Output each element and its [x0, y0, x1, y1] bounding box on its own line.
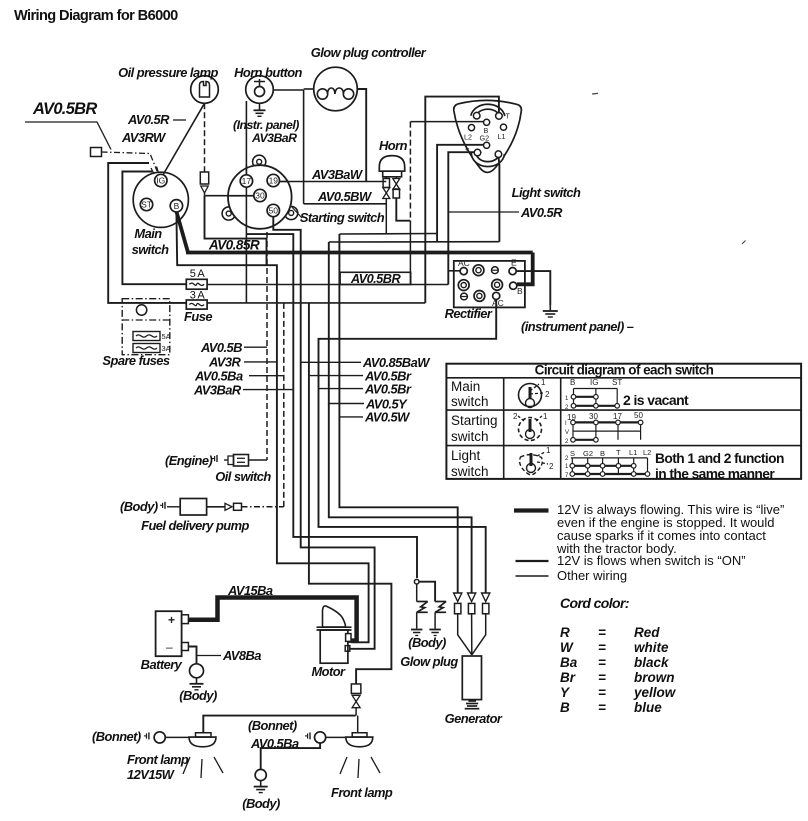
svg-text:(Body): (Body)	[179, 688, 217, 703]
wire V3 dashed fuel pump feed	[283, 303, 285, 507]
right lamp rays	[340, 757, 347, 774]
main switch	[133, 172, 188, 227]
light switch terminal L1	[500, 124, 506, 130]
svg-text:AV3BaW: AV3BaW	[311, 167, 364, 182]
svg-text:Ba: Ba	[560, 655, 578, 670]
wire 30 branch down around AV0.85R label	[205, 196, 267, 266]
light switch terminal L2	[468, 125, 474, 131]
dashed wire pump to V3	[242, 506, 284, 508]
svg-text:2 is vacant: 2 is vacant	[623, 392, 689, 408]
wire main switch IG area to 5A fuse	[122, 172, 186, 285]
wire V7 rectifier AC2 to generator	[319, 300, 497, 594]
svg-text:AV0.85R: AV0.85R	[208, 238, 260, 253]
rectifier	[454, 261, 525, 308]
svg-text:L1: L1	[629, 448, 637, 457]
wire starting switch 17 down to glow plug feed V4	[245, 188, 247, 303]
wire AV3BaW: starting switch 19 to horn connector	[280, 181, 386, 183]
wire harness H1	[339, 233, 437, 236]
glow plug 1 zigzag	[416, 584, 418, 602]
svg-text:AV0.5BR: AV0.5BR	[32, 100, 97, 118]
wire oil lamp to main switch IG (diagonal)	[164, 103, 205, 174]
svg-text:Motor: Motor	[311, 664, 346, 679]
svg-text:=: =	[598, 700, 606, 715]
svg-text:ST: ST	[612, 378, 622, 387]
svg-text:(Body): (Body)	[242, 796, 280, 811]
leader for AV0.5BR	[25, 122, 111, 150]
svg-text:Glow plug controller: Glow plug controller	[311, 45, 427, 60]
svg-text:Oil pressure lamp: Oil pressure lamp	[118, 65, 218, 80]
svg-text:AV0.5Ba: AV0.5Ba	[194, 369, 243, 384]
wire starting switch 30 to oil lamp branch	[205, 195, 254, 197]
svg-text:AC: AC	[492, 298, 504, 308]
motor terminal upper	[346, 634, 351, 642]
svg-text:Cord color:: Cord color:	[560, 595, 629, 611]
svg-text:AV0.5BR: AV0.5BR	[350, 271, 402, 286]
svg-text:–: –	[166, 640, 173, 654]
svg-text:19: 19	[269, 176, 279, 186]
svg-text:Front lamp: Front lamp	[331, 785, 393, 800]
ground instrument panel	[549, 305, 551, 311]
svg-text:Other wiring: Other wiring	[557, 568, 627, 583]
wire V1 dashed oil switch feed	[266, 232, 268, 460]
wire pump to connector	[207, 506, 225, 508]
svg-text:12V15W: 12V15W	[127, 767, 176, 782]
wire battery minus to ground	[188, 647, 196, 664]
wire rectifier E to ground	[516, 271, 550, 305]
wire horn left connector down to H1	[385, 199, 387, 234]
svg-text:in the same manner: in the same manner	[655, 467, 775, 482]
label AV0.5W with leader	[339, 416, 363, 418]
svg-text:black: black	[634, 655, 670, 670]
light switch contacts	[565, 448, 651, 479]
label AV8Ba with leader	[197, 655, 222, 657]
label AV0.5R right	[448, 211, 519, 213]
light switch pictogram	[520, 455, 543, 475]
svg-text:L1: L1	[498, 132, 506, 141]
svg-text:R: R	[560, 625, 570, 640]
svg-text:17: 17	[242, 176, 252, 186]
battery ground circle	[190, 664, 204, 678]
svg-text:2: 2	[513, 412, 518, 421]
svg-text:1: 1	[546, 446, 551, 455]
right front lamp	[352, 733, 367, 737]
scan speck right	[742, 241, 746, 245]
oil pressure lamp	[191, 76, 219, 104]
svg-text:G2: G2	[583, 449, 593, 458]
wire glow plug controller right down to AV3BaW	[357, 89, 366, 182]
svg-text:Fuel delivery pump: Fuel delivery pump	[141, 518, 249, 533]
svg-text:=: =	[598, 655, 606, 670]
svg-text:AV3R: AV3R	[208, 355, 241, 370]
svg-text:B: B	[570, 378, 575, 387]
svg-text:AV0.5R: AV0.5R	[127, 112, 170, 127]
left lamp rays	[183, 757, 190, 774]
svg-text:Fuse: Fuse	[184, 309, 212, 324]
wire vertical down to AV0.5BR wire	[409, 221, 411, 285]
label AV0.5Br 2 with leader	[319, 388, 364, 390]
svg-text:12V is flows when switch is “O: 12V is flows when switch is “ON”	[557, 553, 746, 568]
wire headlamp feed V6 from 3A wire	[309, 303, 392, 684]
wire main switch IG area to 3A fuse	[108, 163, 186, 303]
svg-text:(Body): (Body)	[408, 635, 446, 650]
svg-text:AV0.5R: AV0.5R	[520, 205, 563, 220]
svg-text:switch: switch	[451, 429, 489, 444]
svg-text:Starting switch: Starting switch	[300, 210, 385, 225]
main switch contacts	[565, 378, 622, 411]
svg-text:B: B	[560, 700, 570, 715]
wire oil switch to V1	[249, 459, 268, 461]
main switch wire entry ticks at IG	[151, 168, 154, 174]
battery	[156, 611, 182, 656]
spare fuse 2	[133, 344, 160, 353]
dash-dot wire AV3RW to main switch IG	[102, 152, 158, 171]
svg-text:AV0.5BW: AV0.5BW	[317, 189, 373, 204]
motor	[320, 630, 348, 663]
svg-text:=: =	[598, 670, 606, 685]
svg-text:AV8Ba: AV8Ba	[222, 648, 261, 663]
wire light switch bottom-right circle down to H2	[498, 157, 501, 241]
svg-text:ST: ST	[141, 200, 152, 210]
spare fuse 1	[133, 332, 160, 341]
svg-text:30: 30	[255, 191, 265, 201]
svg-text:=: =	[598, 640, 606, 655]
label AV0.85BaW with leader	[301, 361, 361, 363]
starting switch mounting ears	[253, 155, 266, 168]
wire glow plug controller left stub	[304, 88, 314, 90]
wire middle ground circle	[261, 743, 320, 769]
generator wire 3 diode connector	[482, 593, 490, 602]
svg-text:blue: blue	[634, 700, 662, 715]
svg-text:L2: L2	[643, 448, 651, 457]
starting switch	[228, 165, 292, 229]
horn button	[246, 76, 274, 104]
ground of horn button	[259, 103, 261, 110]
svg-text:Wiring Diagram for B6000: Wiring Diagram for B6000	[14, 8, 178, 24]
stub S vertical to rectifier AC1	[448, 270, 460, 272]
wire main switch B thin down to V2 motor feed	[176, 212, 368, 642]
glow plug junction node	[414, 579, 419, 584]
connector on oil lamp wire	[200, 172, 208, 184]
svg-text:S: S	[465, 146, 470, 155]
light switch terminal B	[484, 119, 490, 125]
svg-text:switch: switch	[451, 464, 489, 479]
svg-text:Battery: Battery	[141, 657, 183, 672]
svg-text:5 A: 5 A	[190, 268, 206, 280]
svg-text:(instrument panel) –: (instrument panel) –	[521, 319, 634, 334]
wire main switch B thick to AV0.85R	[176, 212, 188, 253]
middle AV0.5Ba node	[305, 735, 308, 737]
left front lamp	[144, 735, 147, 737]
svg-text:AV3BaR: AV3BaR	[193, 383, 242, 398]
horn	[379, 156, 404, 172]
svg-text:Circuit diagram of each switch: Circuit diagram of each switch	[535, 363, 714, 378]
svg-text:switch: switch	[132, 242, 170, 257]
label AV0.5Br 1 with leader	[308, 375, 363, 377]
light switch terminal G2	[484, 142, 490, 148]
wire to right front lamp	[357, 716, 359, 733]
svg-text:Front lamp: Front lamp	[127, 752, 189, 767]
svg-text:3A: 3A	[162, 344, 171, 353]
svg-text:Both 1 and 2 function: Both 1 and 2 function	[655, 451, 784, 466]
wire AV0.5BR from 5A fuse to light switch S vertical	[207, 284, 448, 286]
wire from 3A fuse right	[207, 302, 425, 304]
svg-text:AC: AC	[458, 258, 470, 268]
bonnet harness horizontal	[203, 716, 355, 733]
svg-text:5A: 5A	[162, 332, 171, 341]
svg-text:IG: IG	[590, 378, 598, 387]
light switch top contact arc	[473, 107, 502, 117]
svg-text:30: 30	[589, 412, 598, 421]
svg-text:=: =	[598, 685, 606, 700]
thick wire AV15Ba battery to motor	[188, 598, 356, 641]
svg-text:W: W	[560, 640, 574, 655]
svg-text:AV3BaR: AV3BaR	[251, 131, 297, 145]
legend medium wire sample	[516, 560, 549, 562]
scan speck top right	[592, 92, 598, 95]
svg-text:yellow: yellow	[633, 685, 677, 700]
svg-text:Spare fuses: Spare fuses	[102, 353, 170, 368]
starting switch pictogram	[519, 418, 542, 441]
svg-text:T: T	[506, 112, 511, 121]
glow plug controller	[314, 67, 358, 111]
dashed wire oil lamp down	[204, 103, 206, 172]
svg-text:Rectifier: Rectifier	[445, 306, 493, 321]
table circuit diagram of each switch	[446, 364, 801, 479]
svg-text:Oil switch: Oil switch	[215, 469, 271, 484]
svg-text:brown: brown	[634, 670, 675, 685]
label AV0.5BR box	[340, 272, 411, 284]
svg-text:B: B	[600, 449, 605, 458]
wire V8 AV0.5Y	[329, 242, 472, 593]
svg-text:AV0.5W: AV0.5W	[364, 410, 411, 425]
wires converging to generator	[458, 613, 472, 655]
bonnet harness connector stack	[351, 684, 361, 694]
svg-text:1: 1	[541, 378, 546, 387]
svg-text:G2: G2	[480, 134, 490, 143]
wire light switch S down to AV0.5BR wire	[448, 152, 474, 284]
svg-text:Red: Red	[634, 625, 660, 640]
svg-text:50: 50	[634, 411, 643, 420]
svg-text:50: 50	[269, 206, 279, 216]
svg-text:+: +	[168, 613, 175, 627]
wire starting switch 50 down to motor solenoid V5	[273, 217, 374, 649]
svg-text:AV0.5B: AV0.5B	[200, 340, 242, 355]
svg-text:white: white	[634, 640, 669, 655]
oil switch	[212, 458, 215, 460]
wire harness H2	[329, 241, 500, 243]
svg-text:(Bonnet): (Bonnet)	[248, 718, 297, 733]
connector block on AV3RW wire	[91, 148, 102, 157]
svg-text:V: V	[565, 430, 569, 436]
svg-text:2: 2	[549, 462, 554, 471]
legend thin wire sample	[516, 575, 549, 577]
svg-text:S: S	[570, 449, 575, 458]
svg-text:Horn: Horn	[379, 138, 408, 153]
generator	[462, 656, 481, 700]
wire V9 AV0.5W	[339, 234, 457, 593]
thick wire AV0.85R horizontal	[186, 251, 533, 255]
svg-text:E: E	[511, 258, 517, 268]
svg-text:(Body): (Body)	[120, 499, 158, 514]
wire AV0.5BW vertical	[303, 90, 305, 204]
svg-text:Horn button: Horn button	[234, 65, 302, 80]
light switch body	[454, 100, 522, 172]
svg-text:(Bonnet): (Bonnet)	[92, 729, 141, 744]
svg-text:IG: IG	[156, 176, 165, 186]
svg-text:Light switch: Light switch	[512, 185, 581, 200]
wire light switch G2 down to H2	[437, 145, 483, 242]
wire starting switch 17 up to horn button	[245, 101, 247, 175]
label AV0.5Y with leader	[328, 403, 364, 405]
svg-text:AV0.5Br: AV0.5Br	[364, 382, 412, 397]
svg-text:Generator: Generator	[445, 711, 503, 726]
svg-text:=: =	[598, 625, 606, 640]
svg-text:Starting: Starting	[451, 413, 498, 428]
svg-text:AV15Ba: AV15Ba	[227, 583, 273, 598]
svg-text:AV3RW: AV3RW	[121, 130, 167, 145]
light switch bottom contact arc	[474, 152, 502, 164]
horn left connector	[385, 177, 387, 178]
svg-text:Main: Main	[451, 379, 480, 394]
glow plug 2 zigzag	[435, 601, 446, 603]
horn right connector	[395, 177, 397, 179]
svg-text:2: 2	[545, 390, 550, 399]
fuel delivery pump	[160, 504, 163, 506]
leader starting switch	[291, 206, 302, 218]
legend thick wire sample	[514, 508, 549, 512]
wire AV0.5BW horizontal to horn	[304, 203, 387, 205]
wire horn right connector to dashed vertical	[396, 198, 410, 221]
spare fuses box	[122, 299, 170, 355]
svg-text:T: T	[616, 448, 621, 457]
motor terminal lower	[345, 646, 350, 652]
svg-text:(Instr. panel): (Instr. panel)	[233, 118, 299, 132]
wire horn button to AV0.5BW vertical	[273, 89, 303, 91]
svg-text:B: B	[517, 286, 523, 296]
main switch pictogram	[519, 384, 542, 407]
svg-text:L2: L2	[464, 133, 472, 142]
svg-text:Main: Main	[134, 226, 162, 241]
starting switch contacts	[565, 411, 643, 445]
wire light switch B to dashed vertical	[410, 121, 483, 123]
svg-text:1: 1	[543, 412, 548, 421]
thick wire down to rectifier B	[517, 253, 533, 285]
svg-text:Light: Light	[451, 448, 481, 463]
svg-text:B: B	[174, 201, 180, 211]
wire light switch T terminal loop down to 3A wire	[425, 97, 499, 303]
svg-text:Br: Br	[560, 670, 576, 685]
wire junction to right glow plug	[419, 582, 435, 602]
svg-text:(Engine): (Engine)	[165, 453, 212, 468]
svg-text:Glow plug: Glow plug	[400, 654, 458, 669]
svg-text:switch: switch	[451, 394, 489, 409]
generator wire 1 diode connector	[454, 593, 462, 602]
generator wire 2 diode connector	[468, 593, 476, 602]
